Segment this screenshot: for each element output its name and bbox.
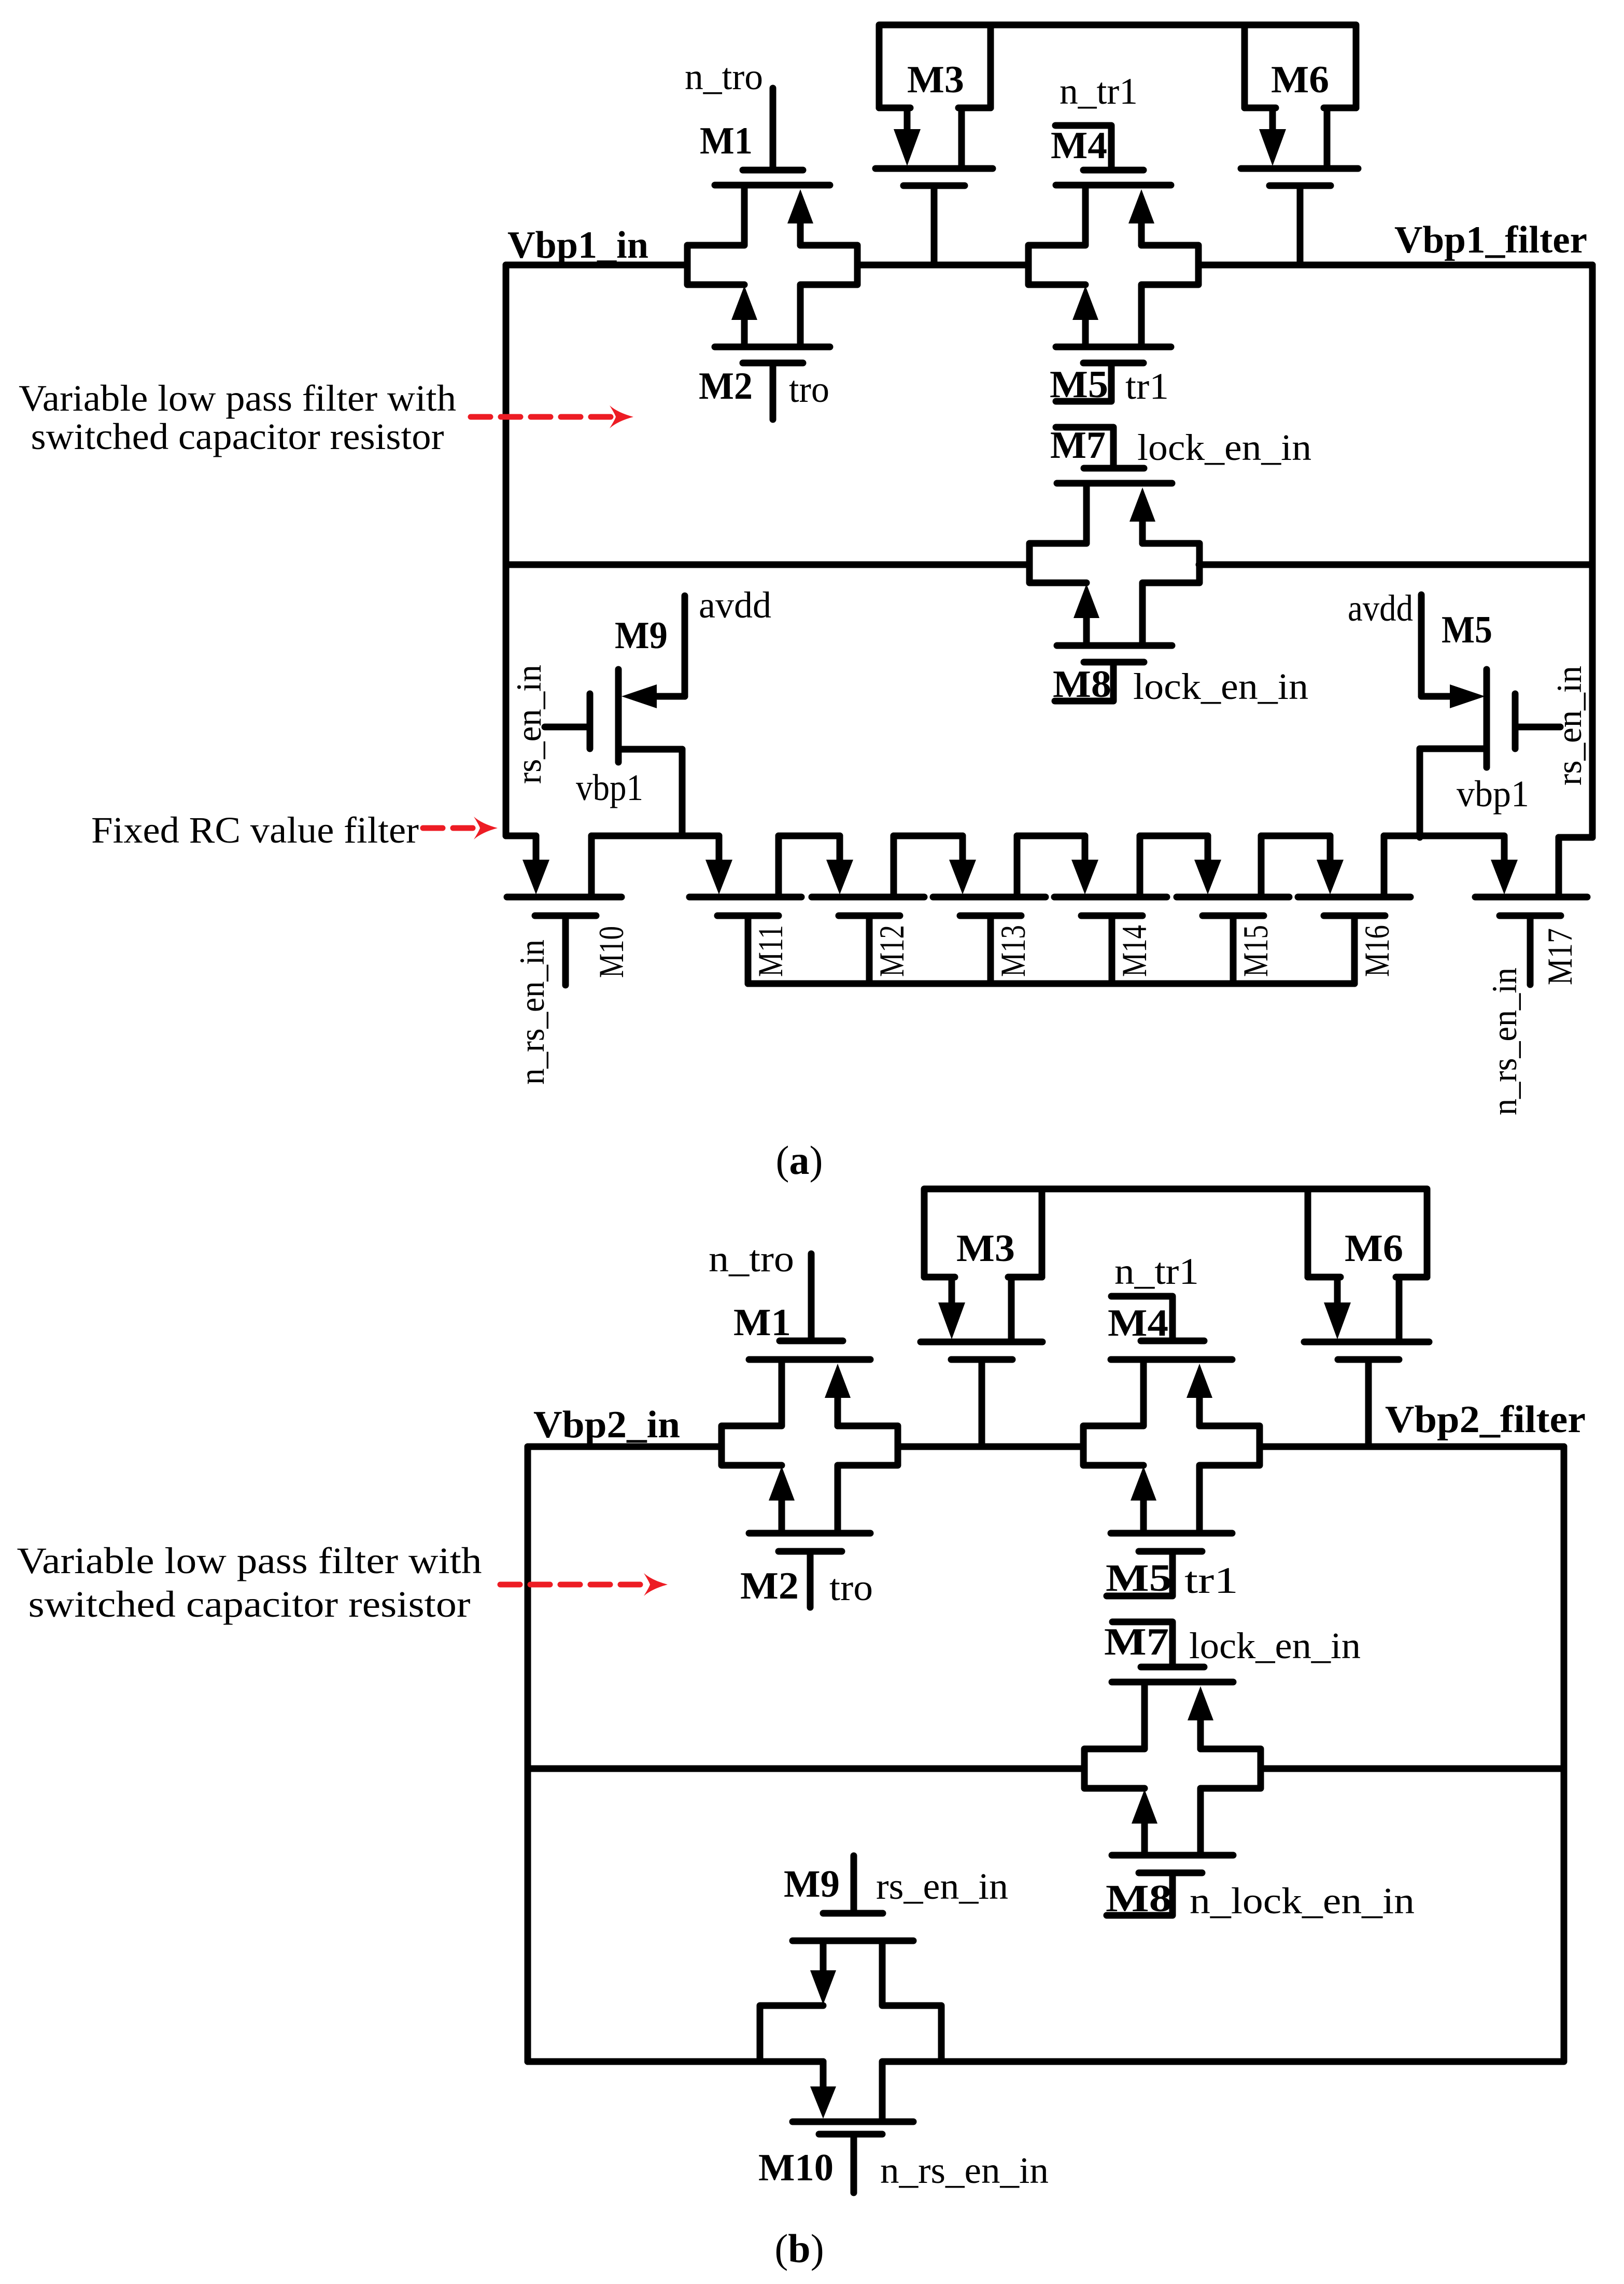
svg-text:Vbp1_in: Vbp1_in: [507, 224, 648, 267]
svg-text:switched capacitor resistor: switched capacitor resistor: [29, 1584, 471, 1625]
transistor M4 gate (n_tr1 control, fig b): [1108, 1251, 1204, 1344]
svg-text:M3: M3: [956, 1227, 1015, 1270]
power avdd symbol right (fig a): [1348, 587, 1421, 696]
svg-text:Vbp1_filter: Vbp1_filter: [1394, 219, 1587, 261]
svg-text:n_lock_en_in: n_lock_en_in: [1190, 1880, 1415, 1922]
transistor M7 gate (lock_en_in control, fig b): [1104, 1621, 1361, 1667]
transistor M3 (PMOS capacitor, fig a): [875, 25, 993, 265]
wire: right vertical trunk Vbp2_filter down (fig b): [1561, 1447, 1567, 2061]
transistor M6 (PMOS capacitor, fig a): [1241, 25, 1358, 265]
svg-text:M1: M1: [700, 120, 753, 162]
wire: fixed RC node from left trunk to M10 (fig a): [506, 833, 536, 839]
net label vbp1 (right M5 drain, fig a): [1457, 773, 1529, 815]
svg-text:tro: tro: [789, 369, 829, 410]
wire: second row lock_en right segment (fig a): [1199, 562, 1592, 568]
transistor M8 gate (lock_en_in control, fig a): [1053, 662, 1308, 707]
wire: left vertical trunk Vbp2_in down (fig b): [525, 1447, 531, 2062]
wire: VDD top rail between M3 and M6 (fig b): [1042, 1186, 1308, 1193]
svg-text:M1: M1: [733, 1301, 791, 1344]
transmission gate M4/M5 body (fig a): [1028, 185, 1198, 347]
svg-text:M4: M4: [1051, 124, 1107, 167]
transmission gate M4/M5 body (fig b): [1083, 1360, 1260, 1533]
wire: M15-M16 bridge (fig a): [1261, 833, 1330, 839]
svg-text:Variable low pass filter with: Variable low pass filter with: [17, 1540, 482, 1581]
caption (b): [774, 2226, 824, 2271]
transistor M5 (PMOS reset switch right, fig a): [1420, 609, 1560, 837]
wire: M10 to M11 segment carrying M9 drain (fig a): [591, 833, 719, 839]
svg-text:M5: M5: [1106, 1557, 1172, 1600]
svg-text:M5: M5: [1050, 363, 1108, 406]
wire: M17 to right trunk (fig a): [1559, 834, 1592, 841]
transistor M9 gate (rs_en_in control, fig b): [784, 1856, 1008, 1913]
transistor M2 gate (tro control, fig a): [699, 363, 829, 419]
node Vbp2_filter wire (fig b): [1260, 1398, 1586, 1447]
annotation: red dashed arrow to filter row (fig b): [500, 1573, 668, 1596]
svg-text:M4: M4: [1108, 1302, 1168, 1344]
transistor M16 (NMOS capacitor, fig a): [1298, 836, 1410, 984]
svg-text:rs_en_in: rs_en_in: [509, 665, 548, 784]
transistor M3 (PMOS capacitor, fig b): [921, 1189, 1042, 1447]
svg-text:M12: M12: [872, 925, 911, 977]
figure (a): variable low pass filter with switched capacitor resistor: [19, 25, 1592, 1183]
transistor M4 gate (n_tr1 control, fig a): [1051, 71, 1143, 170]
transistor M1 gate (n_tro control, fig b): [709, 1238, 843, 1344]
svg-text:M6: M6: [1271, 59, 1329, 101]
wire: M12-M13 bridge (fig a): [894, 833, 963, 839]
svg-text:M2: M2: [740, 1565, 799, 1607]
wire: bottom row right segment (fig b): [939, 2058, 1564, 2065]
svg-text:M6: M6: [1345, 1227, 1403, 1270]
caption (a): [776, 1138, 823, 1183]
svg-text:M2: M2: [699, 365, 753, 408]
net label vbp1 (M9 drain, fig a): [576, 767, 643, 808]
transistor M11 (NMOS capacitor, fig a): [689, 836, 801, 984]
svg-text:Vbp2_filter: Vbp2_filter: [1385, 1398, 1586, 1441]
svg-text:vbp1: vbp1: [1457, 773, 1529, 815]
svg-text:avdd: avdd: [1348, 587, 1413, 629]
transistor M6 (PMOS capacitor, fig b): [1304, 1189, 1429, 1447]
svg-text:M9: M9: [615, 614, 668, 657]
transistor M8 gate (n_lock_en_in control, fig b): [1106, 1873, 1415, 1922]
svg-text:Variable low pass filter with: Variable low pass filter with: [19, 377, 456, 419]
transistor M10 (NMOS capacitor, fig a): [507, 836, 631, 985]
annotation: red dashed arrow to fixed RC node (fig a): [423, 817, 498, 839]
svg-text:rs_en_in: rs_en_in: [876, 1866, 1008, 1907]
svg-text:M10: M10: [591, 926, 631, 978]
svg-text:lock_en_in: lock_en_in: [1189, 1625, 1361, 1666]
wire: bottom row left segment (fig b): [528, 2058, 762, 2065]
transistor M7 gate (lock_en_in control, fig a): [1050, 424, 1311, 468]
node Vbp2_in wire (fig b): [528, 1404, 722, 1447]
power avdd symbol left (fig a): [685, 584, 771, 696]
svg-text:(a): (a): [776, 1138, 823, 1183]
wire: M11-M12 bridge (fig a): [779, 833, 840, 839]
wire: M14-M15 bridge (fig a): [1140, 833, 1208, 839]
transistor M9 (PMOS reset switch, fig a): [545, 614, 685, 836]
svg-text:M9: M9: [784, 1863, 840, 1905]
net label n_rs_en_in rotated (M10 gate, fig a): [512, 940, 552, 1085]
node Vbp1_in wire (fig a): [506, 224, 687, 267]
svg-text:M15: M15: [1236, 925, 1275, 977]
transistor M15 (NMOS capacitor, fig a): [1177, 836, 1289, 984]
svg-text:vbp1: vbp1: [576, 767, 643, 808]
transmission gate M7/M8 body (fig a): [1029, 483, 1199, 646]
svg-text:M8: M8: [1106, 1877, 1172, 1920]
svg-text:tro: tro: [829, 1567, 873, 1608]
transistor M5 gate of transmission gate (tr1 control, fig a): [1050, 363, 1169, 407]
wire: left vertical trunk Vbp1_in down to fixed RC filter (fig a): [503, 265, 510, 836]
svg-text:n_tro: n_tro: [685, 56, 763, 97]
svg-text:n_rs_en_in: n_rs_en_in: [880, 2150, 1049, 2191]
net label rs_en_in rotated (right M5 gate, fig a): [1549, 666, 1589, 786]
svg-text:Fixed RC value filter: Fixed RC value filter: [91, 809, 419, 851]
figure (b): second variable low pass filter: [17, 1189, 1586, 2271]
svg-text:tr1: tr1: [1125, 366, 1169, 407]
annotation: variable low pass filter callout text (fig b): [17, 1540, 482, 1625]
wire: M13-M14 bridge (fig a): [1017, 833, 1085, 839]
node Vbp1_filter wire (fig a): [1198, 219, 1592, 265]
transistor M10 gate (n_rs_en_in control, fig b): [758, 2134, 1049, 2193]
wire: right vertical trunk Vbp1_filter down (fig a): [1589, 265, 1596, 837]
transmission gate M1/M2 body (fig b): [722, 1360, 898, 1533]
wire: TG M1/M2 to TG M4/M5 with M3 tap (fig a): [857, 262, 1028, 269]
svg-text:n_tr1: n_tr1: [1060, 71, 1138, 112]
net label n_rs_en_in rotated (M17 gate, fig a): [1485, 968, 1524, 1115]
wire: M16 to M17 segment carrying right M5 drain (fig a): [1384, 833, 1504, 839]
svg-text:M8: M8: [1053, 663, 1111, 706]
svg-text:M11: M11: [751, 925, 790, 977]
wire: TG M1/M2 to TG M4/M5 with M3 tap (fig b): [898, 1444, 1083, 1450]
svg-text:tr1: tr1: [1184, 1560, 1238, 1601]
transistor M17 (NMOS capacitor, fig a): [1475, 837, 1587, 985]
svg-text:rs_en_in: rs_en_in: [1549, 666, 1589, 786]
svg-text:M7: M7: [1104, 1621, 1169, 1663]
svg-text:avdd: avdd: [699, 584, 771, 626]
svg-text:M13: M13: [993, 925, 1033, 977]
svg-text:Vbp2_in: Vbp2_in: [533, 1404, 680, 1446]
svg-text:M14: M14: [1114, 925, 1154, 977]
wire: second row lock_en left segment (fig a): [506, 562, 1029, 568]
svg-text:n_rs_en_in: n_rs_en_in: [1485, 968, 1524, 1115]
svg-text:M10: M10: [758, 2147, 834, 2189]
svg-text:M7: M7: [1050, 424, 1106, 467]
transmission gate M1/M2 body (fig a): [687, 185, 857, 347]
net label rs_en_in rotated (M9 gate, fig a): [509, 665, 548, 784]
svg-text:(b): (b): [774, 2226, 824, 2271]
svg-text:M5: M5: [1442, 609, 1492, 651]
wire: second row lock_en left segment (fig b): [528, 1765, 1084, 1772]
annotation: fixed RC value filter callout text (fig a): [91, 809, 419, 851]
svg-text:n_tr1: n_tr1: [1114, 1251, 1199, 1292]
transistor M13 (NMOS capacitor, fig a): [933, 836, 1046, 984]
svg-text:M16: M16: [1357, 925, 1396, 977]
transistor M12 (NMOS capacitor, fig a): [812, 836, 924, 984]
transistor M2 gate (tro control, fig b): [740, 1551, 873, 1608]
annotation: red dashed arrow to filter row (fig a): [471, 405, 633, 428]
transistor M14 (NMOS capacitor, fig a): [1054, 836, 1167, 984]
svg-text:M3: M3: [907, 59, 964, 101]
transmission gate M9/M10 body (fig b): [760, 1941, 941, 2122]
annotation: variable low pass filter callout text (fig a): [19, 377, 456, 457]
svg-text:lock_en_in: lock_en_in: [1133, 666, 1308, 707]
wire: VDD top rail between M3 and M6 (fig a): [991, 22, 1245, 29]
svg-text:switched capacitor resistor: switched capacitor resistor: [31, 416, 444, 457]
transistor M5 gate (tr1 control, fig b): [1106, 1551, 1238, 1601]
svg-text:n_tro: n_tro: [709, 1238, 794, 1280]
wire: gate bus joining M11-M16 gates (fig a): [748, 980, 1354, 987]
wire: second row lock_en right segment (fig b): [1261, 1765, 1564, 1772]
transmission gate M7/M8 body (fig b): [1084, 1682, 1261, 1855]
svg-text:M17: M17: [1540, 928, 1579, 985]
transistor M1 gate (n_tro control, fig a): [685, 56, 803, 170]
svg-text:lock_en_in: lock_en_in: [1137, 427, 1311, 468]
svg-text:n_rs_en_in: n_rs_en_in: [512, 940, 552, 1085]
